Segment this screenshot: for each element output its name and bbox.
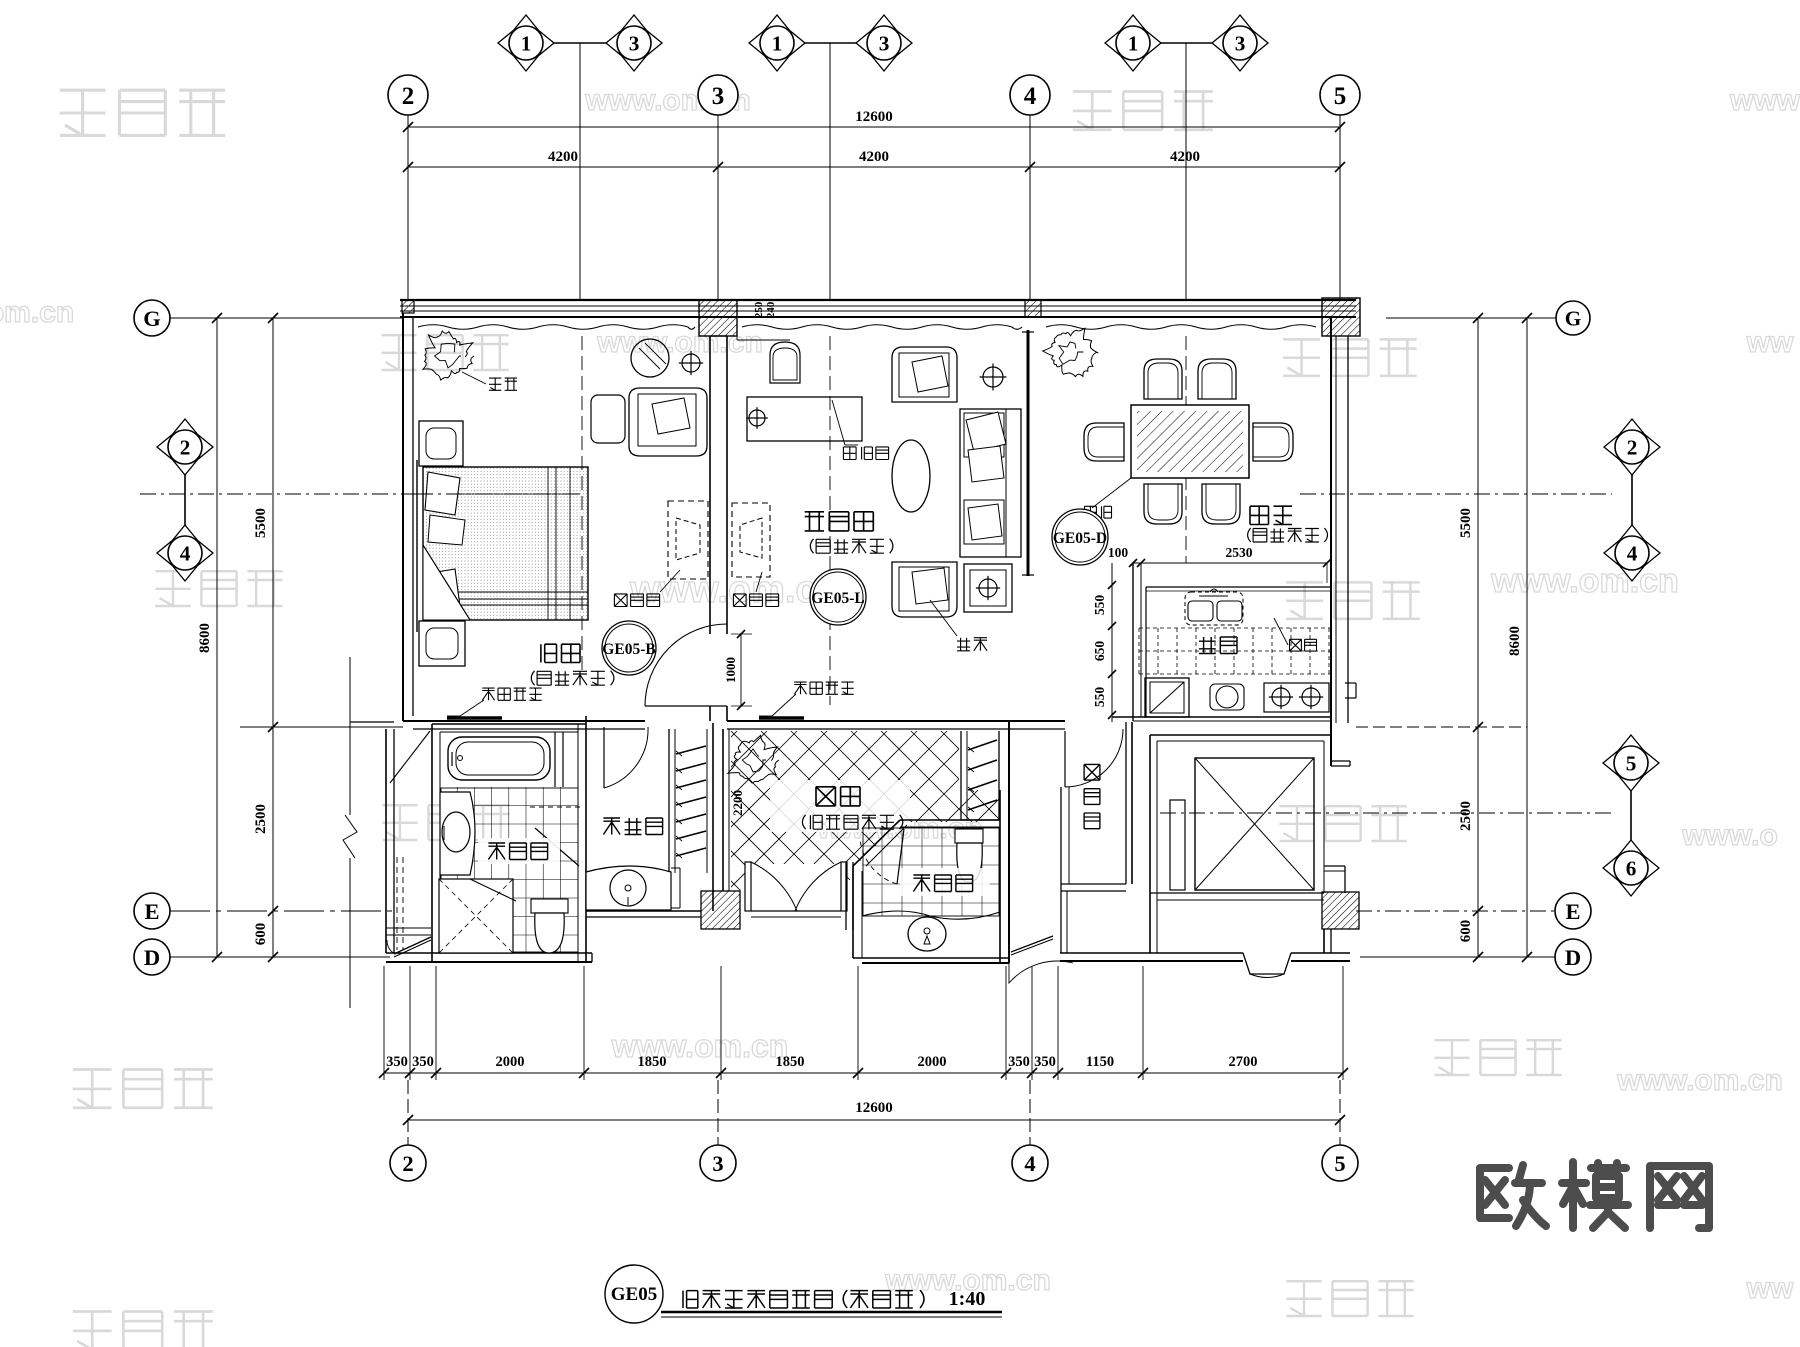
title text <box>683 1290 924 1308</box>
svg-text:1850: 1850 <box>776 1054 805 1070</box>
elevator bottom walls <box>1150 892 1324 894</box>
decor label bedroom 装饰挂画 <box>482 688 541 700</box>
svg-text:350: 350 <box>1034 1054 1056 1070</box>
flower symbol bedroom <box>682 354 700 372</box>
bottom wall under elevator <box>1060 952 1243 954</box>
left bath toilet <box>531 899 568 913</box>
top exterior wall band <box>400 299 1356 301</box>
svg-text:100: 100 <box>1108 545 1129 560</box>
bed fold corner <box>423 545 470 620</box>
svg-text:5: 5 <box>1626 751 1637 775</box>
TV cabinet bedroom side <box>668 501 708 579</box>
svg-text:3: 3 <box>712 1151 723 1176</box>
svg-text:2: 2 <box>402 1151 413 1176</box>
svg-text:350: 350 <box>412 1054 434 1070</box>
svg-text:350: 350 <box>1008 1054 1030 1070</box>
column hatch top-left <box>402 300 414 313</box>
lower room door leaf <box>1011 936 1053 952</box>
grid bubble pair 1-3 (right) <box>1150 42 1223 44</box>
svg-text:1850: 1850 <box>638 1054 667 1070</box>
GE05-D tag <box>1052 509 1108 565</box>
living labels 起居室 <box>805 512 874 531</box>
svg-text:www: www <box>1729 84 1800 117</box>
title bubble GE05 <box>605 1265 663 1323</box>
bathroom block walls (left bath) <box>431 724 433 962</box>
service door notch <box>1243 953 1291 974</box>
column hatch top-right <box>1322 298 1360 336</box>
living armchair south <box>892 562 957 617</box>
svg-text:GE05-L: GE05-L <box>811 590 864 607</box>
bedroom plant 绿化 <box>423 331 474 380</box>
kitchen bottom wall <box>1112 716 1331 718</box>
dining labels 餐厅 <box>1250 506 1292 524</box>
svg-text:2: 2 <box>1627 435 1638 459</box>
sofa side table <box>964 564 1012 612</box>
elevator shaft <box>1195 758 1314 890</box>
column hatch block right <box>1322 892 1359 929</box>
svg-text:250: 250 <box>753 301 765 318</box>
svg-text:www.om.cn: www.om.cn <box>1616 1064 1783 1097</box>
lower luggage room <box>1061 890 1126 892</box>
kitchen label 厨房 <box>1199 637 1237 654</box>
lower-left niche and door leaf <box>386 927 431 929</box>
right bath toilet <box>955 829 983 843</box>
top dimension 4200 x3 <box>408 166 1340 168</box>
cloakroom right wall <box>712 723 714 911</box>
bedroom round table <box>631 339 669 377</box>
svg-text:D: D <box>144 945 160 970</box>
row bubble G right <box>1386 317 1557 319</box>
svg-text:E: E <box>1565 899 1580 924</box>
kitchen tile band dashed grid <box>1138 628 1140 674</box>
svg-text:1: 1 <box>521 31 532 55</box>
luggage room label 行李房 <box>1084 764 1100 828</box>
left lower outer wall with break symbol <box>349 657 351 815</box>
title underline <box>661 1311 1002 1314</box>
foyer plant <box>728 735 779 783</box>
svg-text:4: 4 <box>1024 1151 1035 1176</box>
foyer labels 玄关 大理石满铺 <box>770 780 910 832</box>
TV labels 电视柜 x2 <box>614 594 659 607</box>
watermark layer <box>60 90 106 135</box>
foyer left wall <box>722 729 724 891</box>
right dimension 8600 <box>1526 318 1528 957</box>
svg-text:GE05-B: GE05-B <box>602 641 655 658</box>
window wave line top <box>418 325 695 330</box>
svg-text:ww: ww <box>1746 1272 1794 1305</box>
svg-text:om.cn: om.cn <box>0 296 74 329</box>
svg-text:4: 4 <box>180 541 191 565</box>
bottom extension lines <box>383 966 385 1080</box>
desk 写字台 <box>747 397 862 441</box>
elevator lobby walls <box>1149 735 1151 953</box>
kitchen left wall <box>1132 563 1134 721</box>
svg-text:1150: 1150 <box>1086 1054 1114 1070</box>
svg-text:2000: 2000 <box>918 1054 947 1070</box>
svg-text:550: 550 <box>1092 687 1107 708</box>
decor label living 装饰挂画 <box>794 682 853 694</box>
bed pillows <box>425 472 460 515</box>
svg-text:G: G <box>143 306 161 331</box>
bottom dimension 12600 <box>408 1119 1340 1121</box>
svg-text:600: 600 <box>253 923 269 946</box>
svg-text:4200: 4200 <box>1170 149 1200 165</box>
desk chair <box>770 342 800 383</box>
right pair bubbles 2-4 <box>1631 466 1633 534</box>
grid line 1 dashed (bedroom) <box>581 336 583 672</box>
dining table label 餐桌 <box>1092 478 1131 508</box>
bottom column bubbles 2 3 4 5 <box>407 1080 409 1145</box>
wall picture bedroom <box>447 716 502 720</box>
cloakroom door arc top <box>603 727 605 788</box>
grid bubble pair 1-3 (middle) <box>794 42 867 44</box>
kitchen right wall notch <box>1345 682 1356 684</box>
tub partition <box>554 732 556 787</box>
right bath door <box>897 829 904 884</box>
entry double door <box>745 862 751 911</box>
svg-text:4: 4 <box>1024 83 1037 110</box>
left dimensions 5500 2500 600 <box>272 318 274 957</box>
luggage closet door <box>1064 731 1066 787</box>
cloakroom vanity <box>586 866 671 910</box>
svg-text:E: E <box>144 899 159 924</box>
right bath tile grid <box>881 827 883 916</box>
svg-text:GE05: GE05 <box>611 1284 657 1305</box>
right bath sink <box>908 917 946 951</box>
svg-text:2700: 2700 <box>1229 1054 1258 1070</box>
living oval table <box>892 440 930 512</box>
dining table <box>1131 405 1249 478</box>
svg-text:12600: 12600 <box>855 1100 893 1116</box>
nightstand north <box>419 421 463 466</box>
svg-text:650: 650 <box>1092 641 1107 662</box>
kitchen appliance dishwasher <box>1145 678 1189 717</box>
svg-text:1: 1 <box>772 31 783 55</box>
column bubbles 2 3 4 5 top <box>407 115 409 300</box>
shower faucet <box>462 920 470 928</box>
grid row line over bed <box>417 493 582 495</box>
svg-text:350: 350 <box>386 1054 408 1070</box>
svg-text:12600: 12600 <box>855 109 893 125</box>
svg-text:GE05-D: GE05-D <box>1053 530 1107 547</box>
svg-text:www.o: www.o <box>1681 819 1778 852</box>
bedroom-living door (1000 opening) <box>645 705 727 707</box>
svg-text:3: 3 <box>1235 31 1246 55</box>
row bubble D right <box>1360 956 1555 958</box>
duct dashed lines <box>396 857 398 950</box>
wall picture living <box>759 716 804 720</box>
svg-text:4200: 4200 <box>859 149 889 165</box>
partition screen living/dining <box>1027 330 1030 576</box>
svg-text:1:40: 1:40 <box>949 1288 986 1310</box>
GE05-L tag <box>810 569 866 625</box>
service door arc below <box>1009 961 1073 983</box>
grid line dashed (dining) <box>1185 336 1187 563</box>
bedroom label 卧室 <box>541 644 580 662</box>
right pair bubbles 5-6 <box>1630 782 1632 849</box>
site logo 欧模网 <box>1480 1162 1709 1228</box>
svg-text:8600: 8600 <box>1507 626 1523 656</box>
right dimensions 5500 2500 600 <box>1477 318 1479 957</box>
kitchen sink <box>1185 592 1243 625</box>
corridor/foyer top wall <box>727 720 1065 722</box>
left dimension 8600 <box>216 318 218 957</box>
bedroom bottom wall <box>403 720 645 722</box>
svg-text:4: 4 <box>1627 541 1638 565</box>
right bathroom bottom wall <box>853 957 1009 959</box>
bedroom headboard <box>416 460 418 632</box>
dining chairs <box>1144 359 1182 399</box>
row bubble E right <box>1356 910 1555 912</box>
svg-text:8600: 8600 <box>197 623 213 653</box>
svg-text:www.om.cn: www.om.cn <box>1490 562 1679 600</box>
svg-text:ww: ww <box>1746 326 1794 359</box>
living flower symbol <box>983 367 1003 387</box>
svg-text:3: 3 <box>712 83 725 110</box>
left exterior wall <box>402 313 404 721</box>
row bubble E left <box>170 910 396 912</box>
grid bubble pair 1-3 (left) <box>543 42 617 44</box>
bottom wall right end <box>1291 952 1350 954</box>
nightstand south <box>419 621 465 666</box>
small door leaf near bathroom <box>390 731 430 783</box>
left pair bubbles 2-4 <box>184 466 186 534</box>
bedroom armchair <box>629 388 707 456</box>
kitchen dim 100 2530 <box>1133 562 1327 564</box>
bottom segmented dimension line <box>384 1072 1343 1074</box>
svg-text:1000: 1000 <box>723 657 738 683</box>
svg-text:5: 5 <box>1334 1151 1345 1176</box>
right bath counter wave <box>862 911 1000 919</box>
grid line 1 dashed (living) <box>829 336 831 705</box>
svg-text:600: 600 <box>1458 920 1474 943</box>
svg-text:2: 2 <box>180 435 191 459</box>
column hatch grid3 <box>699 300 737 336</box>
bathroom label 卫生间 left <box>478 838 560 864</box>
partition wall bedroom/living <box>709 336 711 634</box>
left bath vanity <box>440 792 475 875</box>
wall step right <box>1331 760 1350 762</box>
sofa label 沙发 <box>930 600 957 636</box>
living armchair north <box>892 347 957 402</box>
svg-text:G: G <box>1565 306 1582 330</box>
foyer closet with hangers <box>960 731 962 820</box>
bathroom bottom wall <box>386 952 592 954</box>
svg-text:5: 5 <box>1334 83 1347 110</box>
bedroom ottoman <box>591 395 625 443</box>
living sofa <box>960 409 1021 557</box>
kitchen stove <box>1264 683 1329 712</box>
cloakroom hanger strip <box>668 729 670 873</box>
svg-text:www.om.cn: www.om.cn <box>596 326 763 359</box>
left bath door dashed <box>530 806 580 808</box>
svg-text:4200: 4200 <box>548 149 578 165</box>
TV cabinet living side <box>732 503 770 577</box>
entry right jamb wall <box>845 862 847 930</box>
bed <box>423 467 588 620</box>
svg-text:2500: 2500 <box>1458 801 1474 831</box>
row bubble G left <box>170 317 403 319</box>
svg-text:550: 550 <box>1092 595 1107 616</box>
svg-text:2530: 2530 <box>1226 545 1253 560</box>
svg-text:2200: 2200 <box>730 790 745 816</box>
left bath tile grid <box>456 787 458 953</box>
svg-text:2500: 2500 <box>253 804 269 834</box>
svg-text:2: 2 <box>402 83 415 110</box>
elevator door rect <box>1170 800 1185 890</box>
kitchen counter <box>1146 586 1331 588</box>
row bubble D left <box>170 956 390 958</box>
bar label 吧台 <box>1274 618 1288 645</box>
kitchen wall left of corridor <box>1111 717 1113 722</box>
bathtub <box>448 737 550 780</box>
svg-text:5500: 5500 <box>1458 508 1474 538</box>
right bathroom walls <box>852 866 854 958</box>
living tree plant <box>1043 328 1099 376</box>
svg-text:240: 240 <box>765 301 777 318</box>
entry recessed wall + hatch column <box>586 910 701 912</box>
cloakroom label 衣帽间 <box>603 818 662 835</box>
GE05-B tag <box>602 621 656 675</box>
svg-text:3: 3 <box>879 31 890 55</box>
svg-text:2000: 2000 <box>496 1054 525 1070</box>
svg-text:1: 1 <box>1128 31 1139 55</box>
right exterior wall upper <box>1330 317 1332 723</box>
svg-text:5500: 5500 <box>253 508 269 538</box>
top dimension 12600 <box>408 126 1340 128</box>
svg-text:6: 6 <box>1626 856 1637 880</box>
kitchen pot sink <box>1210 684 1244 710</box>
bathroom label 卫生间 right <box>900 868 990 896</box>
kitchen vertical dims 550 650 550 <box>1111 563 1113 715</box>
svg-text:D: D <box>1565 945 1581 970</box>
luggage corridor walls <box>1055 722 1057 790</box>
svg-text:3: 3 <box>629 31 640 55</box>
left bath shower <box>439 879 513 953</box>
column hatch grid4 <box>1025 300 1041 317</box>
